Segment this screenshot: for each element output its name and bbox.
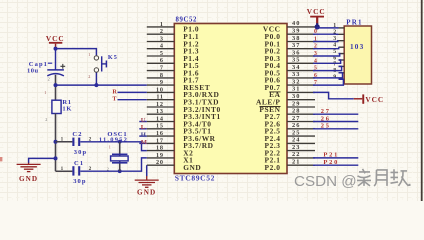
svg-text:39: 39 [292,28,300,35]
wire C2 to X2 (pin 18) [80,142,147,151]
U1 pin 40 stub [287,26,315,28]
svg-text:7: 7 [314,80,317,86]
svg-text:10u: 10u [27,68,39,75]
power symbol VCC (right, bar style) [354,98,363,100]
wire VCC to PR1 pin 1 [317,27,338,28]
svg-text:21: 21 [292,159,300,166]
wire rail to C2 [56,141,73,143]
svg-text:19: 19 [156,152,164,159]
PR1 pin 5 stub [339,53,345,55]
U1 pin 31 stub [287,91,315,93]
wire button K5 lower leg [95,72,97,85]
svg-text:1: 1 [88,52,90,57]
U1 pin 25 stub [287,135,315,137]
wire VCC rail down to Cap1 [55,48,57,70]
svg-text:2: 2 [107,166,109,171]
U1 pin 30 stub [287,99,315,101]
svg-text:5: 5 [160,50,164,57]
svg-text:24: 24 [292,137,300,144]
wire P0.0: U1 pin 39 to PR1 pin 2 [313,33,339,35]
U1 pin 24 stub [287,142,315,144]
svg-text:GND: GND [183,163,201,172]
PR1 pin 9 stub [339,78,345,80]
svg-text:C2: C2 [72,131,82,138]
svg-text:26: 26 [292,122,300,129]
svg-text:36: 36 [292,49,300,56]
wire net H to U1 pin 16 [139,135,147,137]
junction VCC/button branch [54,47,58,51]
svg-text:7: 7 [160,65,164,72]
PR1 pin 8 stub [339,72,345,74]
PR1 pin 1 stub [339,27,345,29]
PR1 pin 3 stub [339,40,345,42]
U1 pin 3 stub [147,41,175,43]
switch K5 top contact [94,56,98,60]
U1 pin 39 stub [287,33,315,35]
svg-text:1: 1 [44,90,46,95]
svg-text:12: 12 [156,101,164,108]
svg-text:M: M [141,139,148,146]
wire U1 pin 20 to GND [146,165,148,176]
resistor R1 body [52,100,61,113]
wire Cap1 to reset node [55,75,57,101]
PR1 pin 7 stub [339,65,345,67]
U1 pin 2 stub [147,33,175,35]
svg-text:6: 6 [160,57,164,64]
Cap1 designator [48,62,52,64]
wire net L to U1 pin 15 [139,128,147,130]
wire P2 net from U1 pin 22 [313,157,358,159]
junction reset node [54,83,58,87]
crystal OSC1 body [111,156,129,161]
wire net T to U1 pin 11 [118,99,147,101]
wire VCC node to button K5 [56,49,97,56]
svg-text:CSDN @: CSDN @ [294,173,357,190]
wire P0.2: U1 pin 37 to PR1 pin 4 [313,47,339,49]
U1 pin 6 stub [147,62,175,64]
svg-text:1: 1 [109,145,111,150]
U1 pin 22 stub [287,157,315,159]
U1 pin 5 stub [147,55,175,57]
svg-text:8: 8 [160,72,164,79]
svg-text:29: 29 [292,100,300,107]
svg-text:25: 25 [292,129,300,136]
U1 pin 20 stub [147,164,175,166]
PSEN overline [260,106,281,108]
svg-text:2: 2 [88,74,90,79]
U1 pin 15 stub [147,128,175,130]
svg-text:17: 17 [156,137,164,144]
wire rail to C1 [56,170,73,172]
PR1 pin 6 stub [339,59,345,61]
U1 pin 14 stub [147,121,175,123]
resistor network PR1 body [344,26,371,84]
svg-text:1: 1 [61,166,64,172]
svg-text:1K: 1K [62,105,72,112]
U1 pin 34 stub [287,70,315,72]
U1 pin 27 stub [287,121,315,123]
svg-text:5: 5 [333,49,336,55]
svg-text:9: 9 [160,79,164,86]
svg-text:16: 16 [156,130,164,137]
svg-text:VCC: VCC [46,34,65,43]
wire P0.3: U1 pin 36 to PR1 pin 5 [313,54,340,56]
U1 pin 21 stub [287,164,315,166]
svg-text:35: 35 [292,57,300,64]
svg-text:27: 27 [321,108,331,115]
svg-text:VCC: VCC [307,7,326,16]
svg-text:1: 1 [314,37,317,43]
wire pin40 to VCC [315,26,317,28]
junction crystal bottom [118,169,122,173]
svg-text:103: 103 [350,43,364,51]
clipped net label at left edge [0,157,2,161]
svg-text:11: 11 [156,94,163,101]
wire net R to U1 pin 10 [118,91,147,93]
junction crystal top [118,140,122,144]
U1 pin 12 stub [147,106,175,108]
capacitor Cap1 bottom plate (curved) [47,74,64,76]
svg-text:15: 15 [156,123,164,130]
wire P2 net from U1 pin 27 [313,121,358,123]
svg-text:H: H [141,132,147,139]
svg-text:18: 18 [156,145,164,152]
wire P0.5: U1 pin 34 to PR1 pin 7 [313,66,342,70]
svg-text:1: 1 [160,21,164,28]
svg-text:L: L [141,124,146,131]
U1 pin 37 stub [287,48,315,50]
svg-text:P21: P21 [323,152,339,159]
EA overline [269,91,280,93]
capacitor C1 plates [72,166,74,175]
svg-text:27: 27 [292,115,300,122]
U1 pin 19 stub [147,157,175,159]
svg-text:R: R [112,88,117,95]
U1 pin 33 stub [287,77,315,79]
svg-text:3: 3 [160,35,164,42]
wire P2 net from U1 pin 28 [313,113,358,115]
junction pin40/VCC [315,24,320,29]
ground symbol GND (left) [17,163,41,172]
svg-text:4: 4 [333,43,336,49]
wire R1 to ground rail [55,114,57,172]
U1 pin 1 stub [147,26,175,28]
U1 pin 32 stub [287,84,315,86]
svg-text:22: 22 [292,151,300,158]
svg-text:31: 31 [292,86,300,93]
junction ground branch [54,156,58,160]
svg-text:30p: 30p [74,149,87,156]
ground symbol GND (middle) [135,176,159,187]
U1 pin 26 stub [287,128,315,130]
U1 pin 4 stub [147,48,175,50]
svg-text:10: 10 [156,86,164,93]
U1 pin 8 stub [147,77,175,79]
U1 pin 36 stub [287,55,315,57]
svg-text:GND: GND [137,189,156,197]
svg-text:89C52: 89C52 [176,16,198,23]
svg-text:28: 28 [292,108,300,115]
svg-text:0: 0 [314,29,317,35]
junction button/reset [94,83,98,87]
svg-text:11.0952: 11.0952 [99,136,128,143]
switch K5 actuator [101,56,103,71]
svg-text:2: 2 [48,76,50,81]
wire reset net to U1 pin 9 [56,84,147,86]
wire P2 net from U1 pin 26 [313,128,358,130]
svg-text:13: 13 [156,108,164,115]
U1 pin 11 stub [147,99,175,101]
crystal OSC1 bottom plate [112,162,127,164]
svg-text:2: 2 [160,28,164,35]
svg-text:U: U [141,117,146,124]
svg-text:14: 14 [156,115,164,122]
U1 pin 16 stub [147,135,175,137]
svg-text:STC89C52: STC89C52 [175,174,215,183]
svg-text:4: 4 [160,43,164,50]
U1 pin 7 stub [147,70,175,72]
IC U1 89C52 body [174,24,287,174]
wire net U to U1 pin 14 [139,121,147,123]
U1 pin 29 stub [287,106,315,108]
svg-text:30: 30 [292,93,300,100]
wire EA (pin31) to VCC [313,92,354,98]
wire C1 to X1 (pin 19) [80,158,147,171]
wire P0.7: U1 pin 32 to PR1 pin 9 [313,79,343,85]
PR1 pin 4 stub [339,46,345,48]
svg-text:P20: P20 [323,159,339,166]
wire P0.6: U1 pin 33 to PR1 pin 8 [313,73,343,78]
U1 pin 35 stub [287,62,315,64]
wire P2 net from U1 pin 21 [313,164,358,166]
svg-text:P2.0: P2.0 [265,163,281,172]
capacitor Cap1 top plate [47,69,64,71]
svg-text:PR1: PR1 [346,19,362,27]
wire P0.4: U1 pin 35 to PR1 pin 6 [313,60,341,63]
crystal OSC1 vertical leads [119,142,121,171]
svg-text:26: 26 [321,115,331,122]
U1 pin 23 stub [287,150,315,152]
svg-text:32: 32 [292,78,300,85]
U1 pin 13 stub [147,113,175,115]
svg-text:K5: K5 [108,54,118,61]
svg-text:C1: C1 [74,160,84,167]
svg-text:38: 38 [292,35,300,42]
svg-text:37: 37 [292,42,300,49]
svg-text:34: 34 [292,64,300,71]
U1 pin 10 stub [147,91,175,93]
wire to left GND [29,158,56,163]
svg-text:33: 33 [292,71,300,78]
capacitor C2 plates [72,138,74,146]
PR1 pin 2 stub [339,33,345,35]
svg-text:5: 5 [314,66,317,72]
crystal OSC1 top plate [112,153,127,155]
svg-text:23: 23 [292,144,300,151]
svg-text:3: 3 [314,51,317,57]
U1 pin 17 stub [147,142,175,144]
image right border line [421,0,423,201]
U1 pin 28 stub [287,113,315,115]
svg-text:20: 20 [156,159,164,166]
svg-text:1: 1 [61,136,64,142]
svg-text:GND: GND [19,175,38,183]
svg-text:30p: 30p [73,178,86,185]
svg-text:40: 40 [292,20,300,27]
svg-text:25: 25 [321,123,331,130]
svg-text:2: 2 [45,117,47,122]
svg-text:4: 4 [314,58,317,64]
svg-text:6: 6 [314,73,317,79]
svg-text:VCC: VCC [365,95,384,104]
wire net M to U1 pin 17 [139,142,147,144]
wire P0.1: U1 pin 38 to PR1 pin 3 [313,40,339,43]
U1 pin 38 stub [287,41,315,43]
junction C2 branch [54,140,58,144]
switch K5 bottom contact [94,68,98,72]
svg-text:2: 2 [314,44,317,50]
U1 pin 18 stub [147,150,175,152]
Cap1 plus sign [62,64,64,69]
U1 pin 9 stub [147,84,175,86]
